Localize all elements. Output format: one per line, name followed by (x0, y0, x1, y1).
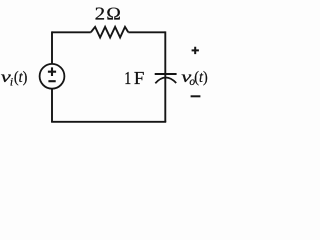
svg-text:2: 2 (95, 3, 106, 23)
label: vo(t) output voltage (181, 69, 207, 88)
wire: top-left segment from source top corner to resistor (52, 31, 91, 33)
wire: right vertical lower (cap to bottom wire) (164, 78, 166, 122)
capacitor C bottom plate (curved arc) (155, 78, 176, 84)
plus sign inside source (48, 67, 56, 76)
svg-text:(t): (t) (194, 69, 207, 86)
minus polarity mark (output) (191, 95, 201, 97)
minus sign inside source (48, 80, 55, 82)
svg-text:(t): (t) (14, 69, 27, 86)
svg-text:i: i (10, 77, 13, 89)
svg-text:Ω: Ω (106, 3, 121, 23)
resistor R (2 ohm) zigzag (91, 27, 129, 38)
capacitor C top plate (straight) (155, 73, 177, 75)
svg-text:F: F (134, 68, 145, 88)
wire: left vertical lower (source bottom to bottom wire) (51, 89, 53, 122)
wire: top-right segment from resistor to top-right corner (128, 31, 165, 33)
wire: left vertical upper (top corner down to source circle) (51, 31, 53, 63)
label: vi(t) source voltage (1, 69, 28, 89)
plus polarity mark (output) (192, 47, 199, 54)
svg-text:1: 1 (124, 68, 131, 88)
wire: right vertical upper (top-right corner down through cap top plate) (164, 31, 166, 77)
voltage source U1 circle (40, 64, 65, 89)
bottom wire (51, 121, 166, 123)
